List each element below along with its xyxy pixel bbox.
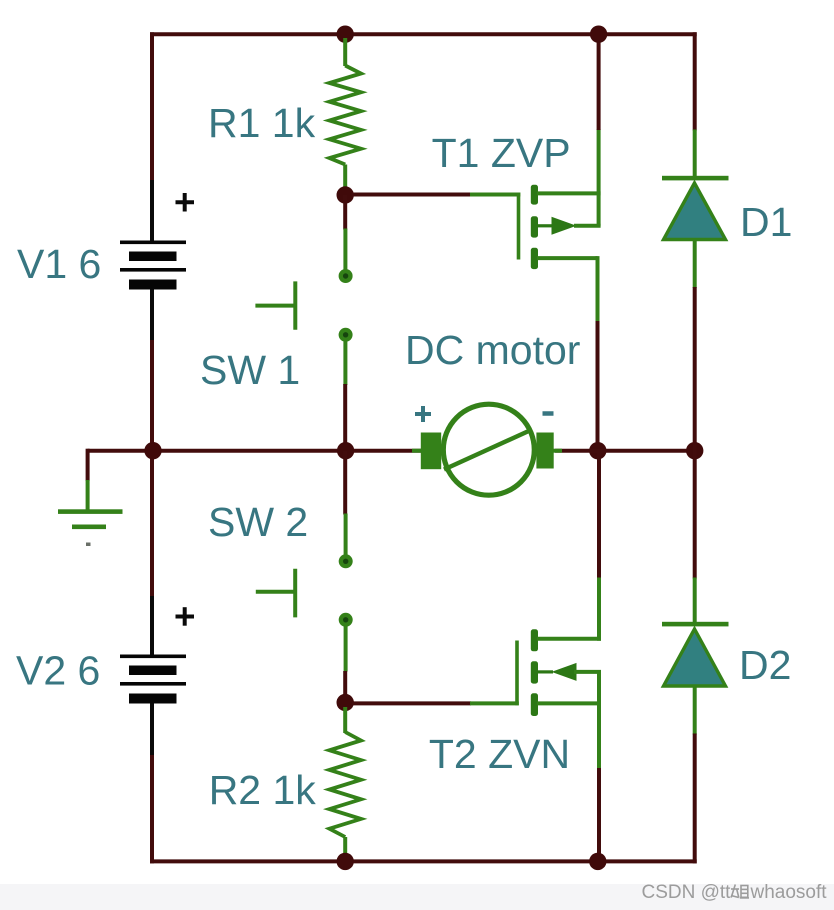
switch SW2 bottom contact xyxy=(339,613,353,627)
DC motor right terminal xyxy=(536,433,553,469)
battery V2 xyxy=(120,655,186,704)
transistor T1 gate pin wire xyxy=(470,193,520,197)
node bottom rail T2 junction xyxy=(589,853,606,870)
svg-text:R2 1k: R2 1k xyxy=(209,767,317,813)
svg-text:V1 6: V1 6 xyxy=(17,241,101,287)
switch SW1 bottom pin wire xyxy=(343,342,347,386)
wire SW2 lower stub xyxy=(343,671,347,703)
transistor T2 gate pin wire xyxy=(470,701,519,705)
svg-text:SW 1: SW 1 xyxy=(200,347,300,393)
svg-text:T2 ZVN: T2 ZVN xyxy=(429,731,570,777)
wire T1 gate net xyxy=(352,193,471,197)
resistor R2 xyxy=(329,732,361,837)
wire left rail lower xyxy=(150,755,154,863)
ground symbol xyxy=(58,509,123,529)
DC motor left pin stub xyxy=(412,449,422,453)
wire D2 anode to bottom rail xyxy=(693,734,697,864)
transistor T1 source/body vertical green xyxy=(597,129,601,226)
transistor T2 body stem xyxy=(538,670,553,673)
transistor T1 body stem xyxy=(538,224,553,227)
battery V2 negative lead xyxy=(150,704,154,761)
resistor R1 xyxy=(329,66,361,165)
wire SW1 lower stub xyxy=(343,384,347,451)
battery V2 positive lead xyxy=(150,596,154,655)
diode D1 cathode bar xyxy=(662,176,729,181)
switch SW2 top pin wire xyxy=(344,514,348,556)
svg-text:R1 1k: R1 1k xyxy=(208,100,316,146)
battery V2 plus sign xyxy=(176,607,195,626)
switch SW2 bottom pin wire xyxy=(344,626,348,672)
diode D1 xyxy=(664,183,726,240)
svg-text:D2: D2 xyxy=(739,642,791,688)
node SW column middle junction xyxy=(337,442,354,459)
wire SW1 upper stub xyxy=(343,195,347,230)
DC motor diagonal xyxy=(444,430,532,470)
wire left rail upper xyxy=(150,32,154,185)
switch SW2 top contact xyxy=(339,554,353,568)
wire T2 gate net xyxy=(352,701,471,705)
node top rail T1 junction xyxy=(590,26,607,43)
diode D2 anode pin wire xyxy=(693,688,697,735)
diode D2 xyxy=(664,629,726,686)
transistor T2 source/body vertical green xyxy=(597,672,601,769)
wire top rail xyxy=(150,32,697,36)
wire bottom rail xyxy=(150,859,697,863)
wire D1 anode to motor node xyxy=(693,287,697,451)
node R2 bottom rail junction xyxy=(337,853,354,870)
resistor R2 bottom lead xyxy=(343,837,347,858)
DC motor minus sign xyxy=(543,411,554,416)
svg-text:D1: D1 xyxy=(740,199,792,245)
node top-left junction of R1 xyxy=(337,26,354,43)
node R2 top / T2 gate junction xyxy=(337,694,354,711)
ground third mark xyxy=(86,543,91,547)
battery V1 plus sign xyxy=(176,193,195,212)
node R1 bottom / T1 gate junction xyxy=(337,186,354,203)
transistor T1 body wire xyxy=(574,224,601,228)
DC motor left terminal xyxy=(421,433,441,470)
DC motor plus sign xyxy=(415,406,431,422)
wire ground stub vertical xyxy=(86,449,90,481)
switch SW1 bottom contact xyxy=(339,328,353,342)
motor supply node xyxy=(589,442,606,459)
wire D2 cathode net xyxy=(693,451,697,579)
transistor T2 source pin wire xyxy=(537,701,601,705)
wire T1 drain to motor node xyxy=(596,321,600,451)
switch SW1 actuator xyxy=(255,281,295,329)
svg-text:whaosoft: whaosoft xyxy=(750,882,828,903)
wire T1 source to top rail xyxy=(597,32,601,130)
battery V1 xyxy=(120,241,186,290)
transistor T1 gate bar xyxy=(517,193,521,260)
transistor T1 drain vertical green xyxy=(596,256,600,322)
diode D1 anode pin wire xyxy=(693,241,697,288)
bottom watermark strip xyxy=(0,884,834,910)
transistor T2 drain vertical green xyxy=(597,577,601,641)
diode D1 cathode pin wire xyxy=(693,130,697,179)
transistor T1 body arrow xyxy=(552,217,577,235)
resistor R2 top lead xyxy=(343,707,347,733)
ground pin wire xyxy=(86,480,90,510)
wire ground stub horizontal xyxy=(88,449,153,453)
battery V1 negative lead xyxy=(150,290,154,346)
wire left rail middle xyxy=(150,340,154,600)
switch SW1 top contact xyxy=(339,269,353,283)
diode D2 cathode pin wire xyxy=(693,578,697,625)
wire T2 drain to motor node xyxy=(597,451,601,578)
transistor T2 channel bars xyxy=(531,629,538,716)
wire SW2 upper stub xyxy=(343,451,347,515)
transistor T1 drain pin wire xyxy=(537,256,598,260)
resistor R1 bottom lead xyxy=(343,165,347,192)
transistor T1 channel bars xyxy=(531,185,538,269)
transistor T2 body wire xyxy=(574,670,601,674)
wire middle rail left xyxy=(151,449,421,453)
node ground junction xyxy=(144,442,161,459)
transistor T2 drain pin wire xyxy=(537,637,601,641)
svg-text:DC motor: DC motor xyxy=(405,327,580,373)
switch SW1 top pin wire xyxy=(343,229,347,271)
svg-text:CSDN @tt: CSDN @tt xyxy=(642,882,732,903)
transistor T2 body arrow xyxy=(552,663,577,681)
battery V1 positive lead xyxy=(150,180,154,241)
wire middle rail right xyxy=(555,449,697,453)
DC motor body xyxy=(443,404,534,495)
watermark CJK glyph xyxy=(731,885,749,898)
switch SW2 actuator xyxy=(256,569,296,618)
svg-text:T1 ZVP: T1 ZVP xyxy=(432,130,571,176)
node diode column middle junction xyxy=(686,442,703,459)
DC motor right pin stub xyxy=(553,449,562,453)
resistor R1 top lead xyxy=(343,38,347,66)
diode D2 cathode bar xyxy=(662,622,729,627)
svg-text:V2 6: V2 6 xyxy=(16,648,100,694)
svg-text:SW 2: SW 2 xyxy=(208,499,308,545)
wire D1 cathode net xyxy=(693,32,697,130)
transistor T2 gate bar xyxy=(515,641,519,706)
transistor T1 source pin wire xyxy=(537,191,601,195)
wire T2 source to bottom rail xyxy=(597,768,601,861)
